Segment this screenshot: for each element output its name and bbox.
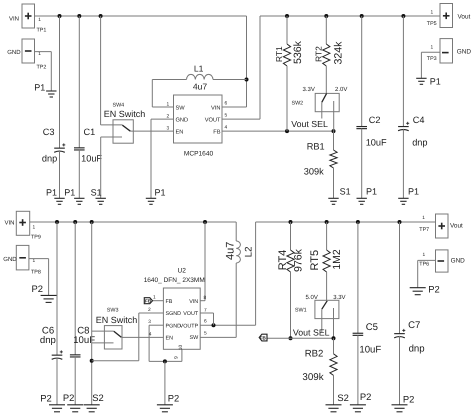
svg-text:P1: P1 [46, 187, 57, 197]
svg-text:L2: L2 [244, 247, 255, 258]
svg-text:P1: P1 [366, 186, 377, 196]
svg-text:EN: EN [166, 336, 174, 342]
svg-text:RT4: RT4 [277, 250, 289, 271]
svg-text:SW3: SW3 [107, 307, 119, 313]
svg-text:Vout: Vout [450, 222, 463, 229]
svg-text:GND: GND [451, 258, 466, 265]
svg-text:SW: SW [176, 105, 186, 111]
svg-text:8: 8 [204, 295, 207, 301]
svg-text:SW: SW [190, 335, 200, 341]
svg-text:C3: C3 [43, 127, 55, 137]
svg-text:9: 9 [174, 356, 180, 359]
svg-text:1: 1 [38, 51, 41, 57]
svg-text:5.0V: 5.0V [306, 294, 318, 301]
svg-text:VOUTP: VOUTP [180, 323, 199, 329]
svg-text:1: 1 [431, 44, 434, 50]
svg-text:dnp: dnp [409, 343, 425, 354]
svg-text:P2: P2 [32, 283, 43, 294]
svg-text:FB: FB [166, 299, 173, 305]
svg-text:MCP1640: MCP1640 [184, 151, 214, 158]
svg-text:P1: P1 [408, 186, 419, 196]
svg-text:VOUT: VOUT [183, 311, 199, 317]
svg-text:6: 6 [225, 100, 228, 106]
svg-text:Vout SEL: Vout SEL [291, 119, 328, 129]
svg-text:SGND: SGND [166, 311, 182, 317]
svg-text:P2: P2 [428, 283, 439, 294]
svg-text:1: 1 [38, 17, 41, 23]
svg-text:VIN: VIN [211, 105, 220, 111]
svg-text:S1: S1 [340, 187, 351, 197]
svg-text:RT2: RT2 [314, 46, 324, 62]
svg-text:TP1: TP1 [37, 28, 47, 34]
svg-text:SW2: SW2 [292, 100, 304, 106]
svg-text:TP9: TP9 [31, 234, 41, 240]
svg-text:RB2: RB2 [305, 349, 324, 360]
svg-text:GND: GND [7, 49, 21, 56]
svg-text:1: 1 [422, 215, 425, 221]
svg-text:S1: S1 [91, 187, 102, 197]
svg-text:TP6: TP6 [419, 261, 429, 267]
svg-text:VIN: VIN [5, 219, 15, 226]
svg-text:VIN: VIN [189, 299, 198, 305]
svg-text:4u7: 4u7 [193, 82, 208, 92]
svg-text:4: 4 [225, 125, 228, 131]
svg-text:GND: GND [457, 48, 472, 55]
svg-text:1: 1 [431, 10, 434, 16]
svg-text:C7: C7 [408, 320, 420, 331]
svg-text:7: 7 [204, 307, 207, 313]
svg-text:TP7: TP7 [419, 227, 429, 233]
svg-text:S2: S2 [337, 392, 348, 403]
svg-text:3.3V: 3.3V [303, 86, 315, 93]
svg-text:536k: 536k [292, 40, 304, 64]
svg-text:5: 5 [204, 331, 207, 337]
svg-text:TP3: TP3 [427, 56, 437, 62]
svg-text:SW1: SW1 [295, 308, 307, 314]
svg-text:P1: P1 [155, 187, 166, 197]
svg-text:EN: EN [176, 129, 184, 135]
svg-text:TP8: TP8 [31, 270, 41, 276]
svg-text:S2: S2 [92, 392, 103, 403]
svg-text:10uF: 10uF [359, 344, 381, 355]
svg-text:P2: P2 [403, 394, 414, 405]
svg-text:P1: P1 [64, 187, 75, 197]
svg-text:C4: C4 [413, 115, 425, 125]
svg-text:L1: L1 [194, 63, 204, 73]
svg-text:C1: C1 [84, 127, 96, 137]
svg-text:324k: 324k [332, 41, 344, 65]
svg-text:RT5: RT5 [309, 250, 321, 271]
svg-text:10: 10 [178, 345, 184, 351]
svg-text:VIN: VIN [9, 16, 19, 23]
svg-text:10uF: 10uF [366, 138, 387, 148]
svg-text:GND: GND [3, 256, 17, 263]
svg-text:1: 1 [33, 224, 36, 230]
svg-text:FB: FB [213, 129, 220, 135]
svg-text:EN Switch: EN Switch [96, 315, 138, 325]
svg-text:GND: GND [176, 117, 189, 123]
svg-text:C2: C2 [369, 115, 381, 125]
svg-text:1640_ DFN_ 2X3MM: 1640_ DFN_ 2X3MM [144, 277, 205, 284]
svg-text:4: 4 [149, 331, 152, 337]
svg-text:dnp: dnp [412, 138, 427, 148]
svg-text:2: 2 [167, 113, 170, 119]
svg-text:5: 5 [225, 113, 228, 119]
svg-text:3: 3 [167, 125, 170, 131]
svg-text:3: 3 [148, 319, 151, 325]
svg-text:P2: P2 [168, 392, 179, 403]
svg-text:309k: 309k [304, 166, 324, 176]
svg-text:1: 1 [167, 101, 170, 107]
svg-text:Vout: Vout [458, 13, 471, 20]
svg-text:SW4: SW4 [113, 102, 125, 108]
svg-text:dnp: dnp [40, 335, 56, 346]
svg-text:1: 1 [423, 252, 426, 258]
svg-text:309k: 309k [302, 372, 323, 383]
svg-text:976k: 976k [292, 248, 304, 272]
svg-text:VOUT: VOUT [205, 117, 221, 123]
svg-text:RT1: RT1 [274, 46, 284, 62]
svg-text:1M2: 1M2 [332, 249, 343, 269]
svg-text:TP2: TP2 [37, 64, 47, 70]
svg-text:3.3V: 3.3V [333, 294, 345, 301]
svg-text:FB: FB [145, 298, 152, 303]
svg-text:P2: P2 [63, 392, 74, 403]
svg-text:EN Switch: EN Switch [104, 109, 146, 119]
svg-text:P1: P1 [430, 77, 441, 87]
svg-text:2: 2 [148, 307, 151, 313]
svg-text:1: 1 [153, 295, 156, 301]
svg-text:TP5: TP5 [427, 21, 437, 27]
svg-text:C5: C5 [366, 322, 378, 333]
svg-text:4u7: 4u7 [224, 242, 236, 260]
svg-text:Vout SEL: Vout SEL [293, 328, 330, 338]
svg-text:6: 6 [204, 319, 207, 325]
svg-text:2.0V: 2.0V [335, 86, 347, 93]
svg-text:P2: P2 [40, 392, 51, 403]
svg-text:P1: P1 [34, 82, 45, 92]
svg-text:RB1: RB1 [307, 142, 325, 152]
svg-text:FB: FB [260, 335, 267, 340]
svg-text:P2: P2 [360, 391, 371, 402]
svg-text:dnp: dnp [42, 153, 57, 163]
svg-text:10uF: 10uF [81, 153, 102, 163]
svg-text:U2: U2 [178, 267, 187, 274]
